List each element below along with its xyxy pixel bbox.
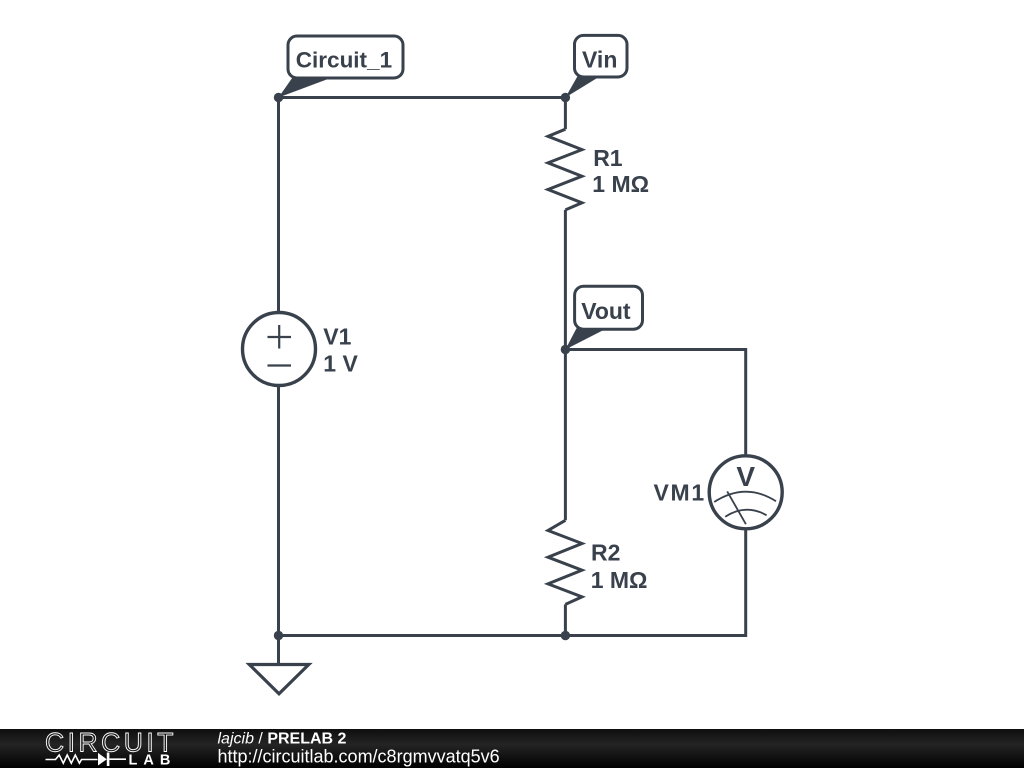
wire bottom horizontal [279,634,746,637]
resistor R1 [548,129,582,210]
ground [249,665,308,694]
node label Vin [565,35,627,97]
wire R1 top stub (Vin node to R1) [564,98,567,130]
node R2 bottom junction dot [561,631,570,640]
wire left vertical upper (node A to V1 top) [277,98,280,314]
node Vin junction dot [561,93,570,102]
logo resistor zigzag [46,755,98,763]
voltage source V1 [243,313,316,386]
svg-text:LAB: LAB [129,753,177,768]
node ground junction dot [274,631,283,640]
logo diode [98,753,107,766]
svg-text:Vout: Vout [581,298,631,324]
svg-text:1 MΩ: 1 MΩ [592,171,649,197]
node label Vout [565,286,642,349]
footer bar [0,729,1024,768]
svg-text:http://circuitlab.com/c8rgmvva: http://circuitlab.com/c8rgmvvatq5v6 [218,747,500,767]
wire R1 bottom to Vout node [564,210,567,350]
wire left vertical lower (V1 bottom to ground node) [277,385,280,636]
svg-text:1 V: 1 V [323,351,358,377]
svg-text:1 MΩ: 1 MΩ [591,567,648,593]
svg-text:R2: R2 [591,540,620,566]
node Vout junction dot [561,345,570,354]
svg-text:R1: R1 [593,145,623,171]
node Circuit_1 junction dot [274,93,283,102]
wire Vout node to voltmeter top (horizontal + vertical) [565,350,745,457]
voltmeter VM1 [709,456,782,529]
svg-text:V: V [736,461,755,492]
resistor R2 [548,520,582,604]
wire top horizontal (Circuit_1 node to Vin node) [279,96,566,99]
svg-text:Circuit_1: Circuit_1 [296,47,392,72]
wire ground stub [277,636,280,665]
svg-text:lajcib / PRELAB 2: lajcib / PRELAB 2 [218,731,347,748]
wire R2 bottom stub [564,604,567,635]
svg-text:V1: V1 [323,324,351,350]
node label Circuit_1 [279,36,404,98]
svg-text:VM1: VM1 [654,480,706,506]
wire Vout node to R2 top [564,350,567,521]
wire voltmeter bottom vertical [741,529,746,636]
svg-text:Vin: Vin [582,47,617,73]
